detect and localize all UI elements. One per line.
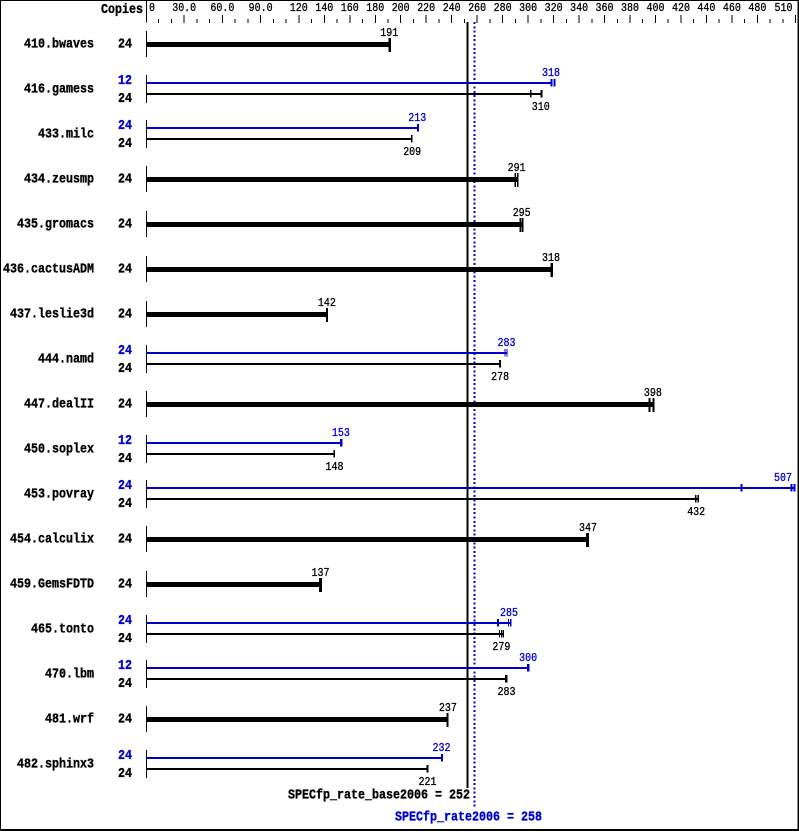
svg-text:291: 291 <box>508 162 526 175</box>
svg-text:507: 507 <box>774 472 792 485</box>
svg-text:213: 213 <box>408 112 426 125</box>
axis minor ticks <box>158 19 159 23</box>
svg-text:420: 420 <box>672 2 690 15</box>
svg-text:24: 24 <box>118 767 132 782</box>
svg-text:24: 24 <box>118 749 132 764</box>
svg-text:435.gromacs: 435.gromacs <box>17 218 94 233</box>
svg-text:310: 310 <box>532 101 550 114</box>
svg-text:24: 24 <box>118 713 132 728</box>
svg-text:90.0: 90.0 <box>249 2 273 15</box>
svg-text:450.soplex: 450.soplex <box>24 443 94 458</box>
svg-text:481.wrf: 481.wrf <box>45 713 94 728</box>
svg-text:24: 24 <box>118 398 132 413</box>
svg-text:416.gamess: 416.gamess <box>24 83 94 98</box>
svg-text:232: 232 <box>433 742 451 755</box>
y axis line <box>146 1 147 23</box>
svg-text:148: 148 <box>326 461 344 474</box>
svg-text:398: 398 <box>644 387 662 400</box>
svg-text:320: 320 <box>545 2 563 15</box>
svg-text:24: 24 <box>118 119 132 134</box>
svg-text:444.namd: 444.namd <box>38 353 94 368</box>
svg-text:432: 432 <box>687 506 705 519</box>
svg-text:12: 12 <box>118 74 132 89</box>
svg-text:Copies: Copies <box>101 3 143 18</box>
svg-text:436.cactusADM: 436.cactusADM <box>3 263 94 278</box>
axis major ticks <box>184 15 185 23</box>
svg-text:24: 24 <box>118 308 132 323</box>
svg-text:318: 318 <box>542 252 560 265</box>
svg-text:24: 24 <box>118 137 132 152</box>
page border right <box>798 0 799 831</box>
svg-text:300: 300 <box>519 2 537 15</box>
svg-text:318: 318 <box>542 67 560 80</box>
svg-text:24: 24 <box>118 479 132 494</box>
svg-text:280: 280 <box>494 2 512 15</box>
svg-text:24: 24 <box>118 614 132 629</box>
base mean line 252 <box>467 22 469 788</box>
svg-text:137: 137 <box>312 567 330 580</box>
svg-text:260: 260 <box>468 2 486 15</box>
svg-text:24: 24 <box>118 533 132 548</box>
svg-text:360: 360 <box>596 2 614 15</box>
svg-text:60.0: 60.0 <box>210 2 234 15</box>
svg-text:191: 191 <box>380 27 398 40</box>
svg-text:480: 480 <box>748 2 766 15</box>
svg-text:24: 24 <box>118 452 132 467</box>
peak mean line 258 (dotted) <box>474 22 476 808</box>
svg-text:200: 200 <box>392 2 410 15</box>
svg-text:447.dealII: 447.dealII <box>24 398 94 413</box>
svg-text:400: 400 <box>647 2 665 15</box>
svg-text:24: 24 <box>118 218 132 233</box>
svg-text:142: 142 <box>318 297 336 310</box>
svg-text:24: 24 <box>118 578 132 593</box>
svg-text:24: 24 <box>118 173 132 188</box>
svg-text:24: 24 <box>118 632 132 647</box>
svg-text:465.tonto: 465.tonto <box>31 623 94 638</box>
svg-text:221: 221 <box>419 776 437 789</box>
svg-text:140: 140 <box>315 2 333 15</box>
svg-text:24: 24 <box>118 497 132 512</box>
svg-text:12: 12 <box>118 659 132 674</box>
svg-text:510: 510 <box>775 2 793 15</box>
page border bottom <box>0 829 799 831</box>
svg-text:453.povray: 453.povray <box>24 488 94 503</box>
svg-text:0: 0 <box>149 2 155 15</box>
svg-text:24: 24 <box>118 344 132 359</box>
svg-text:220: 220 <box>417 2 435 15</box>
svg-text:285: 285 <box>500 607 518 620</box>
svg-text:24: 24 <box>118 263 132 278</box>
svg-text:454.calculix: 454.calculix <box>10 533 94 548</box>
svg-text:470.lbm: 470.lbm <box>45 668 94 683</box>
page border top <box>0 0 799 1</box>
svg-text:237: 237 <box>439 702 457 715</box>
svg-text:24: 24 <box>118 92 132 107</box>
svg-text:410.bwaves: 410.bwaves <box>24 38 94 53</box>
svg-text:459.GemsFDTD: 459.GemsFDTD <box>10 578 94 593</box>
svg-text:24: 24 <box>118 677 132 692</box>
page border left <box>0 0 1 831</box>
svg-text:437.leslie3d: 437.leslie3d <box>10 308 94 323</box>
svg-text:340: 340 <box>570 2 588 15</box>
svg-text:295: 295 <box>513 207 531 220</box>
svg-text:24: 24 <box>118 362 132 377</box>
svg-text:30.0: 30.0 <box>172 2 196 15</box>
svg-text:283: 283 <box>498 337 516 350</box>
svg-text:160: 160 <box>341 2 359 15</box>
svg-text:283: 283 <box>498 686 516 699</box>
svg-text:434.zeusmp: 434.zeusmp <box>24 173 94 188</box>
svg-text:440: 440 <box>697 2 715 15</box>
svg-text:24: 24 <box>118 38 132 53</box>
svg-text:153: 153 <box>332 427 350 440</box>
svg-text:240: 240 <box>443 2 461 15</box>
svg-text:120: 120 <box>290 2 308 15</box>
svg-text:SPECfp_rate_base2006 = 252: SPECfp_rate_base2006 = 252 <box>288 789 470 804</box>
svg-text:460: 460 <box>723 2 741 15</box>
svg-text:300: 300 <box>519 652 537 665</box>
svg-text:433.milc: 433.milc <box>38 128 94 143</box>
svg-text:380: 380 <box>621 2 639 15</box>
svg-text:347: 347 <box>579 522 597 535</box>
svg-text:482.sphinx3: 482.sphinx3 <box>17 758 94 773</box>
svg-text:SPECfp_rate2006 = 258: SPECfp_rate2006 = 258 <box>395 811 542 826</box>
svg-text:12: 12 <box>118 434 132 449</box>
svg-text:279: 279 <box>492 641 510 654</box>
svg-text:209: 209 <box>403 146 421 159</box>
svg-text:278: 278 <box>491 371 509 384</box>
svg-text:180: 180 <box>366 2 384 15</box>
